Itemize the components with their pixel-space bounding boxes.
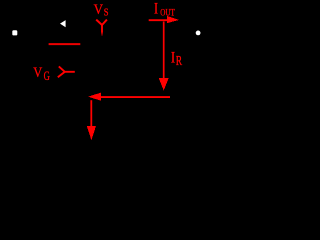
svg-text:R: R [176,52,182,68]
arrow IOUT (points right) [149,16,180,23]
input terminal symbol at VG (sideways Y) [58,66,75,77]
label VG [33,64,50,83]
supply terminal symbol at VS (Y shape) [96,20,107,25]
label IOUT [154,1,176,18]
label IR [171,49,182,68]
wire: IR vertical line [163,22,165,79]
arrow bottom (points left) with wire [88,93,170,101]
svg-text:V: V [33,64,42,80]
node: white dot terminal (right) [196,31,201,36]
svg-text:G: G [44,69,50,83]
svg-text:I: I [154,1,158,18]
node: white left-pointing triangle marker [60,20,66,27]
svg-text:S: S [104,7,109,19]
arrow lower-left head (points down) [87,126,96,140]
wire: lower-left vertical line [90,100,92,127]
wire: VS stem fading down [101,25,103,37]
arrow IR head (points down) [159,78,169,90]
svg-text:V: V [94,2,103,18]
svg-text:I: I [171,49,175,67]
node: white square terminal (left) [12,30,17,35]
label VS [94,2,109,19]
transistor gate bar (red horizontal bar) [49,43,81,45]
